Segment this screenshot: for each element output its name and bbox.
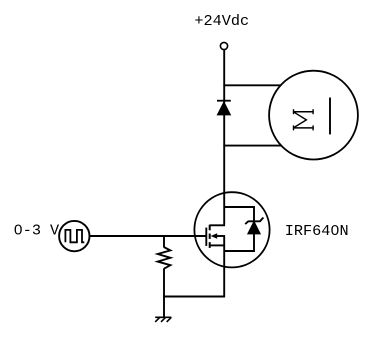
MOSFET Q1 drain connection bbox=[210, 224, 225, 226]
resistor R1 bottom lead bbox=[163, 268, 165, 297]
MOSFET Q1 internal drain-to-diode link bbox=[224, 207, 254, 221]
svg-text:IRF640N: IRF640N bbox=[285, 222, 349, 240]
pulse source V1 bbox=[59, 221, 89, 251]
wire: motor bottom branch bbox=[223, 145, 281, 147]
motor M1 bbox=[269, 71, 358, 160]
MOSFET Q1 body circle bbox=[194, 192, 269, 267]
flyback diode D1 bbox=[217, 101, 231, 115]
MOSFET Q1 channel segments bbox=[209, 225, 211, 248]
resistor R1 top lead bbox=[163, 235, 165, 247]
motor letter M (rotated) bbox=[293, 109, 314, 130]
wire: +24V rail down to MOSFET drain bbox=[223, 50, 225, 226]
pulse waveform bbox=[65, 230, 84, 242]
MOSFET Q1 body arrow bbox=[211, 233, 225, 239]
svg-text:+24Vdc: +24Vdc bbox=[194, 12, 249, 30]
MOSFET Q1 gate lead bbox=[89, 235, 206, 237]
terminal +24Vdc bbox=[220, 42, 227, 49]
resistor R1 bbox=[158, 247, 171, 269]
ground bbox=[155, 317, 171, 322]
wire: ground stem bbox=[163, 297, 165, 318]
MOSFET Q1 source vertical to bottom bbox=[223, 236, 225, 297]
MOSFET Q1 internal source-to-diode link bbox=[224, 233, 254, 251]
MOSFET Q1 gate bar bbox=[205, 228, 207, 246]
wire: source return to ground node bbox=[163, 296, 225, 298]
MOSFET Q1 source connection bbox=[210, 244, 225, 246]
wire: motor top branch bbox=[223, 84, 281, 86]
MOSFET Q1 body diode bbox=[245, 218, 263, 235]
svg-text:0-3 V: 0-3 V bbox=[14, 222, 60, 240]
motor brush bar bbox=[329, 98, 331, 135]
